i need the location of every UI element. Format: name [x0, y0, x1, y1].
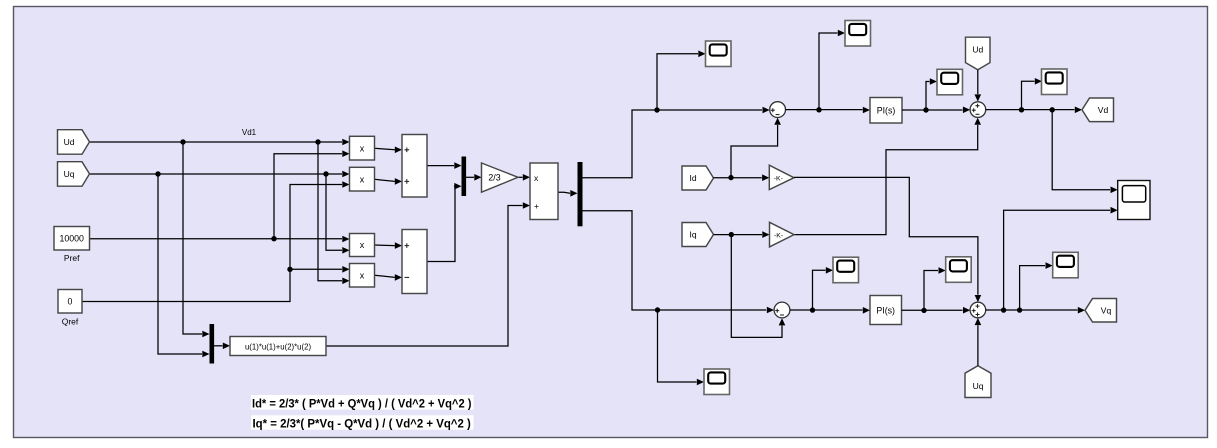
product P1: [350, 136, 375, 160]
goto tag Vd: [1082, 98, 1114, 122]
wire branch to scope SC8: [813, 267, 834, 310]
svg-text:Vd: Vd: [1098, 105, 1109, 115]
node before Vd x1052: [1050, 107, 1055, 112]
wire gain G1 to sum S4 top: [794, 177, 981, 302]
node demux out2 branch x657: [655, 307, 660, 312]
gain 2/3: [482, 163, 519, 192]
svg-text:Id: Id: [689, 173, 696, 183]
svg-text:Pref: Pref: [64, 253, 80, 263]
wire branch to scope SC2: [819, 30, 845, 110]
svg-text:Iq* = 2/3*( P*Vq - Q*Vd ) / (: Iq* = 2/3*( P*Vq - Q*Vd ) / ( Vd^2 + Vq^…: [253, 417, 471, 431]
annotation equation 1: [251, 395, 474, 410]
node after PI2 x924: [921, 308, 926, 313]
Fcn block u(1)*u(1)+u(2)*u(2): [230, 337, 326, 356]
wire branch to scope SC3: [926, 78, 937, 110]
wire product P2 to sum A input2: [375, 178, 403, 185]
wire Iq to gain G2: [714, 231, 770, 238]
sum block A: [402, 135, 427, 198]
svg-text:PI(s): PI(s): [876, 305, 895, 315]
wire branch to scope SC6: [924, 267, 946, 310]
scope SC8: [833, 257, 859, 283]
scope SC1: [706, 41, 732, 67]
wire branch to big scope input2: [1004, 207, 1118, 310]
node after sum S1 x819: [816, 107, 821, 112]
wire product P1 to sum A input1: [375, 147, 403, 154]
node on Iq wire x731: [729, 232, 734, 237]
svg-text:Uq: Uq: [973, 381, 984, 391]
wire Qref to product P2 input2: [82, 181, 350, 301]
node on Ud wire x183: [180, 139, 185, 144]
wire PI1 to sum S3: [902, 107, 970, 114]
svg-text:u(1)*u(1)+u(2)*u(2): u(1)*u(1)+u(2)*u(2): [245, 342, 311, 351]
node on Uq wire x326: [323, 171, 328, 176]
sum block B: [402, 230, 427, 294]
wire sum B to mux M1 input2: [427, 183, 462, 262]
product P3: [350, 234, 375, 257]
svg-text:Qref: Qref: [62, 316, 79, 326]
wire sum A to mux M1 input1: [427, 162, 462, 169]
wire Pref branch to product P1 input2: [274, 150, 350, 238]
sum S3: [970, 102, 986, 118]
mux M2: [210, 324, 215, 364]
wire branch to scope SC1: [657, 51, 706, 111]
wire Ud branch to mux M2 input1: [183, 142, 210, 337]
node after sum S2 x812: [810, 307, 815, 312]
product P4: [350, 264, 375, 288]
From tag Id: [682, 166, 714, 190]
wire divide to demux D1: [558, 190, 578, 197]
svg-text:+: +: [534, 201, 539, 211]
big scope SC9: [1118, 181, 1150, 220]
node after S4 x1003: [1001, 307, 1006, 312]
wire Iq junction to sum S2 minus input: [731, 235, 785, 338]
svg-text:Iq: Iq: [689, 230, 696, 240]
annotation equation 2: [251, 415, 474, 430]
svg-text:0: 0: [68, 297, 73, 307]
wire Fcn to divide input divisor: [326, 202, 530, 346]
node on Ud wire x318: [315, 139, 320, 144]
node after PI1 x926: [923, 107, 928, 112]
goto tag Uq (up): [965, 366, 991, 398]
svg-text:Ud: Ud: [972, 45, 983, 55]
svg-text:10000: 10000: [59, 234, 84, 244]
wire Uq tag to sum S4 bottom: [975, 318, 982, 366]
wire Uq to product P2: [90, 171, 350, 178]
node before Vq x1019: [1017, 307, 1022, 312]
svg-text:2/3: 2/3: [488, 173, 500, 183]
wire sum S1 to PI(s) PI1: [786, 107, 871, 114]
svg-text:x: x: [360, 271, 365, 281]
scope SC7: [1053, 252, 1079, 277]
scope SC2: [845, 21, 871, 47]
node demux out1 branch x657: [654, 107, 659, 112]
wire gain 2/3 to divide input x: [518, 174, 530, 181]
node on Uq wire x158: [155, 171, 160, 176]
From tag Ud: [58, 130, 90, 155]
wire Ud branch to product P4 input2: [318, 142, 350, 284]
wire sum S4 to goto Vq: [986, 307, 1085, 314]
wire Id to gain G1: [714, 174, 770, 181]
node on Pref wire x274: [271, 236, 276, 241]
wire Ud to product P1: [90, 139, 350, 146]
wire sum S3 to goto Vd: [986, 107, 1082, 114]
wire branch to scope SC5: [1022, 78, 1043, 110]
wire branch to big scope input1: [1052, 110, 1118, 193]
wire mux M1 to gain 2/3: [466, 174, 482, 181]
scope SC5: [1042, 69, 1068, 95]
svg-text:-K-: -K-: [774, 175, 783, 182]
node on Qref riser x290: [287, 267, 292, 272]
scope SC4: [704, 369, 730, 395]
node after S3 x1021: [1019, 107, 1024, 112]
svg-text:-K-: -K-: [774, 232, 783, 239]
wire demux out1 to sum S1: [583, 107, 770, 178]
demux D1: [578, 162, 583, 226]
wire demux out2 to sum S2: [583, 211, 775, 314]
constant block Pref 10000: [54, 227, 90, 264]
svg-text:PI(s): PI(s): [877, 106, 896, 116]
mux M1: [462, 157, 467, 197]
wire product P3 to sum B input1: [375, 242, 403, 249]
wire Qref branch to product P4 input1: [290, 266, 350, 273]
sum S2: [774, 302, 790, 318]
wire branch to scope SC7: [1020, 262, 1053, 310]
scope SC6: [946, 257, 972, 283]
sum S4: [970, 302, 986, 318]
wire Id junction to sum S1 minus input: [731, 118, 781, 178]
wire Uq branch to mux M2 input2: [158, 174, 210, 357]
scope SC3: [937, 69, 963, 95]
svg-text:Uq: Uq: [64, 169, 75, 179]
goto tag Ud (down): [966, 37, 991, 70]
From tag Uq: [58, 162, 90, 187]
svg-text:x: x: [360, 240, 365, 250]
svg-text:x: x: [360, 143, 365, 153]
wire Pref to product P3 input1: [90, 236, 350, 243]
wire PI2 to sum S4: [902, 307, 971, 314]
wire Ud tag to sum S3 top: [975, 70, 982, 102]
constant block Qref 0: [58, 290, 82, 327]
gain G2 -K-: [770, 222, 795, 247]
wire Uq branch to product P3 input2: [326, 174, 350, 254]
divide block U1: [530, 163, 558, 220]
svg-text:x: x: [360, 174, 365, 184]
From tag Iq: [682, 223, 714, 247]
node on Id wire x731: [728, 175, 733, 180]
product P2: [350, 167, 375, 191]
svg-text:Vq: Vq: [1101, 306, 1112, 316]
wire product P4 to sum B input2: [375, 274, 403, 281]
PI controller PI2: [870, 296, 902, 325]
wire sum S2 to PI(s) PI2: [790, 307, 870, 314]
goto tag Vq: [1085, 299, 1117, 323]
svg-text:Id* = 2/3* ( P*Vd + Q*Vq ) / (: Id* = 2/3* ( P*Vd + Q*Vq ) / ( Vd^2 + Vq…: [252, 396, 472, 410]
sum S1: [770, 102, 786, 118]
gain G1 -K-: [769, 165, 794, 189]
PI controller PI1: [870, 98, 902, 124]
wire mux M2 to Fcn block: [214, 343, 230, 350]
svg-text:Ud: Ud: [64, 137, 75, 147]
wire gain G2 feedback to sum S3 bottom: [794, 118, 981, 235]
wire branch to scope SC4: [658, 310, 705, 385]
svg-text:Vd1: Vd1: [242, 128, 257, 137]
